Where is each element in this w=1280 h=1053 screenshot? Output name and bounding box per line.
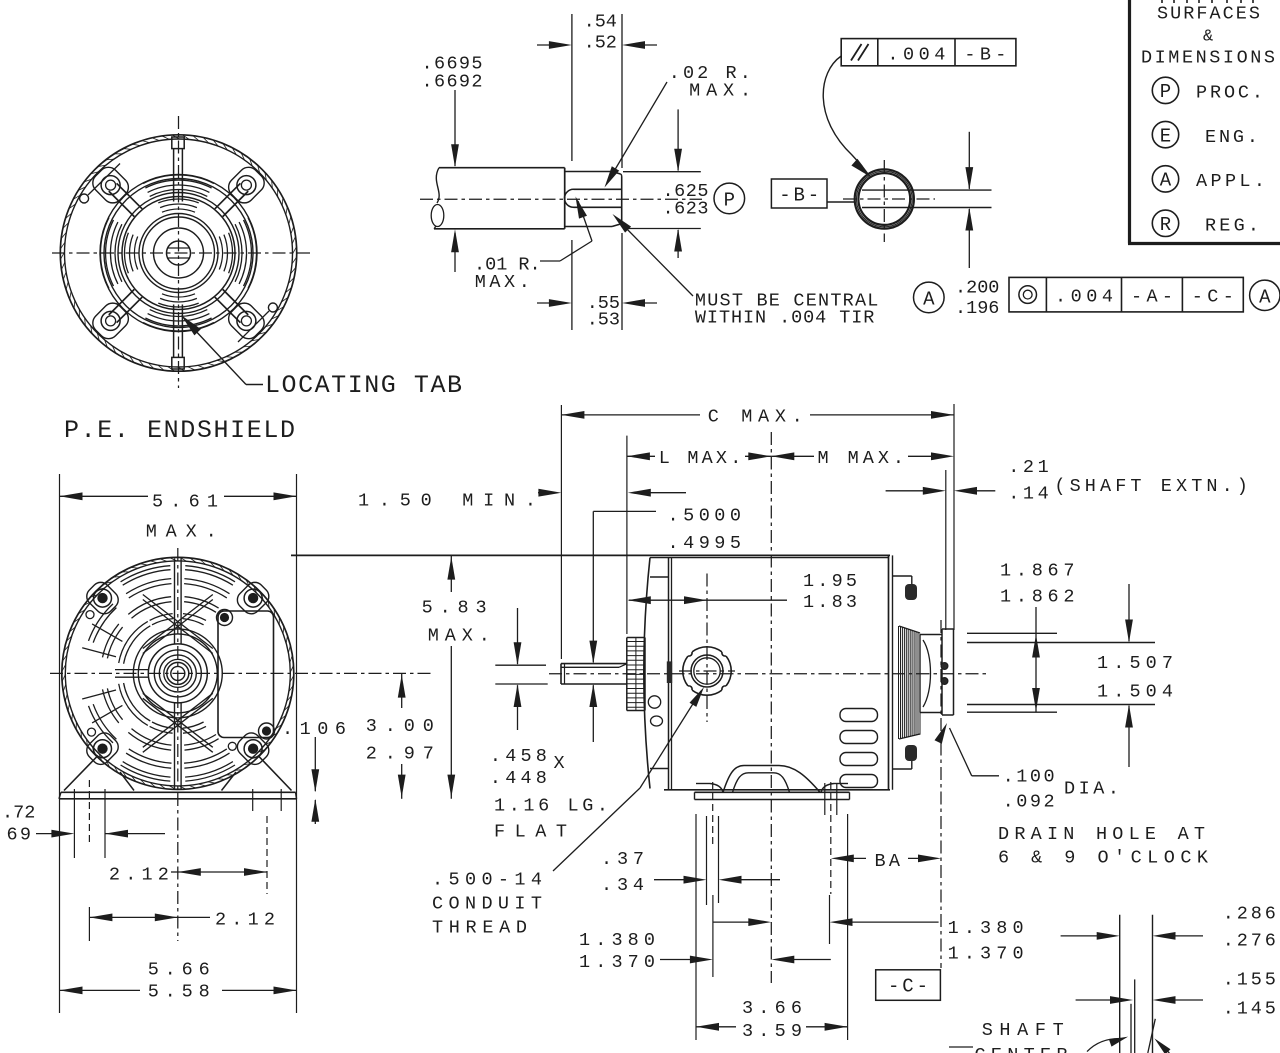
endshield small holes with lines [80,194,89,203]
endshield X-brace spokes [215,183,241,209]
svg-text:.500-14: .500-14 [432,869,542,890]
shaft end view centerlines [843,198,935,200]
svg-text:-C-: -C- [1192,287,1234,308]
svg-text:P: P [724,189,735,211]
shaft flat line [561,666,619,668]
dim .37/.34 [706,816,708,905]
dim 3.66/3.59 [695,814,697,1040]
parallelism feature control frame .004 -B- [841,39,1016,66]
dim 3.00/2.97 [401,673,403,708]
foot hole lines [712,782,714,848]
legend circled R REG. [1152,210,1178,236]
side view shaft centerline [549,673,990,675]
rim hatch [60,135,296,371]
side view feet [695,791,850,793]
front view X braces [143,595,213,649]
shaft center keyway detail [1119,915,1121,1053]
dim .55/.53 [571,240,573,330]
svg-text:APPL.: APPL. [1196,171,1265,192]
dim 5.83 MAX [291,554,649,556]
side view body outline [291,554,890,556]
svg-text:P: P [1160,81,1171,103]
front view left rib and wedge dividers [115,669,148,671]
svg-text:.14: .14 [1008,484,1048,505]
shaft end section [565,171,612,173]
conduit boss centerlines [706,574,708,723]
front view small holes [86,611,94,619]
front view guard arcs [138,634,217,713]
drain hole leader and note [935,723,948,744]
side view vertical centerline datum [770,432,772,983]
front view rim hatch [62,557,294,789]
datum box -C- [876,970,941,1001]
applied circle A with .200/.196 [914,282,945,313]
svg-text:.54: .54 [584,12,617,33]
svg-text:WITHIN .004 TIR: WITHIN .004 TIR [695,308,875,329]
side view left end bell [644,558,650,789]
front view foot hole lines left [73,789,75,858]
svg-text:X: X [554,753,565,774]
svg-text:.34: .34 [601,875,644,896]
dim C MAX [560,405,562,659]
svg-text:E: E [1160,125,1171,147]
svg-text:&: & [1203,28,1213,47]
shaft detail centerline [420,198,702,200]
endshield vent arc slots [235,224,242,282]
shaft break curve [436,168,439,203]
endshield locating tab top [172,137,184,149]
foot end lips [696,783,710,785]
svg-text:.5000: .5000 [668,506,742,527]
concentricity feature control frame .004 -A- -C- [1009,277,1243,312]
dim .458/.448 X [495,664,546,666]
svg-text:.196: .196 [955,298,999,319]
leader from parallelism frame to shaft end view [823,56,862,166]
side view bearing dark patch [667,661,672,683]
dim 1.507/1.504 [967,642,1155,644]
front view base plate [61,791,296,793]
svg-text:-A-: -A- [1131,287,1173,308]
front view centerlines [50,672,434,674]
svg-text:1.50 MIN.: 1.50 MIN. [358,490,536,511]
datum centerline -C- [940,620,942,968]
P.E. endshield rear view - outer rim [60,135,296,371]
svg-text:A: A [1160,170,1172,192]
applied circle A after frame [1250,280,1280,310]
endshield concentric rings [167,241,191,265]
foot arch [723,766,820,793]
dim .54/.52 [571,14,573,161]
svg-text:-B-: -B- [964,45,1006,66]
terminal box bolts [217,610,233,626]
svg-text:PROC.: PROC. [1196,83,1263,104]
svg-text:.4995: .4995 [668,533,742,554]
front view foot hole lines right [252,789,254,811]
svg-text:.37: .37 [601,849,644,870]
leader LOCATING TAB [246,384,263,386]
legend circled A APPL. [1152,166,1178,192]
front view terminal box [218,611,274,738]
side view hub block [920,634,942,636]
center hole thread lines [168,247,190,249]
svg-text:P.E. ENDSHIELD: P.E. ENDSHIELD [64,416,295,445]
side view rotor hatch band [899,626,921,739]
svg-text:.21: .21 [1008,457,1048,478]
front view outer rim [62,557,294,789]
svg-text:A: A [1259,286,1271,308]
front view feet [64,756,98,791]
shaft end view circle [855,169,914,228]
right bracket bolt bumps [905,584,917,600]
dim .625/.623 [623,171,701,173]
dim 1.380/1.370 right [829,895,831,944]
svg-text:.6692: .6692 [422,71,483,92]
legend cut-off text remnants [1162,0,1253,3]
svg-text:.623: .623 [663,198,709,219]
svg-text:.52: .52 [584,32,617,53]
dim .21/.14 shaft extension [945,470,947,630]
svg-text:-C-: -C- [888,976,928,998]
process circle P [714,183,745,214]
dim 2.12 second [88,907,90,941]
svg-text:.72: .72 [2,803,35,824]
front view vertical ribs [174,559,176,645]
svg-text:-B-: -B- [779,185,819,207]
svg-text:.200: .200 [955,277,999,298]
svg-text:R: R [1160,214,1171,236]
side view end cap [942,628,954,630]
shaft body outline [439,167,565,169]
line from -B- box to shaft end view [827,201,855,203]
legend circled P PROC. [1152,77,1178,103]
side view right end bracket [888,555,890,789]
endshield centerlines [52,252,312,254]
datum box -B- [771,179,827,208]
knurled shaft hub [627,637,645,639]
dim L MAX / M MAX [626,436,628,634]
side view through-bolt ellipses [648,696,660,708]
end cap bolt details [941,663,948,670]
svg-text:LOCATING TAB: LOCATING TAB [265,371,462,400]
dim 1.95/1.83 [629,599,787,601]
svg-text:CONDUIT: CONDUIT [432,893,542,914]
dim .155/.145 [1076,999,1115,1001]
endshield bolt pads [224,163,268,207]
legend box border [1128,0,1131,244]
keyway slot [574,188,622,190]
front view hub rings [171,666,185,680]
front view corner bolt pads [234,579,273,618]
svg-text:.53: .53 [587,310,620,331]
dim .200/.196 arrows [968,132,970,189]
dim .286/.276 [1061,935,1104,937]
dim 1.380/1.370 left [712,895,714,977]
legend circled E ENG. [1152,121,1178,147]
shaft end keyway lines [862,189,992,191]
dim 5.61 MAX [59,474,61,1013]
conduit boss [683,647,731,695]
svg-text:A: A [923,288,935,310]
side view vent slots [840,709,878,722]
endshield locating tab bottom [172,357,184,369]
side view shaft [561,663,627,665]
